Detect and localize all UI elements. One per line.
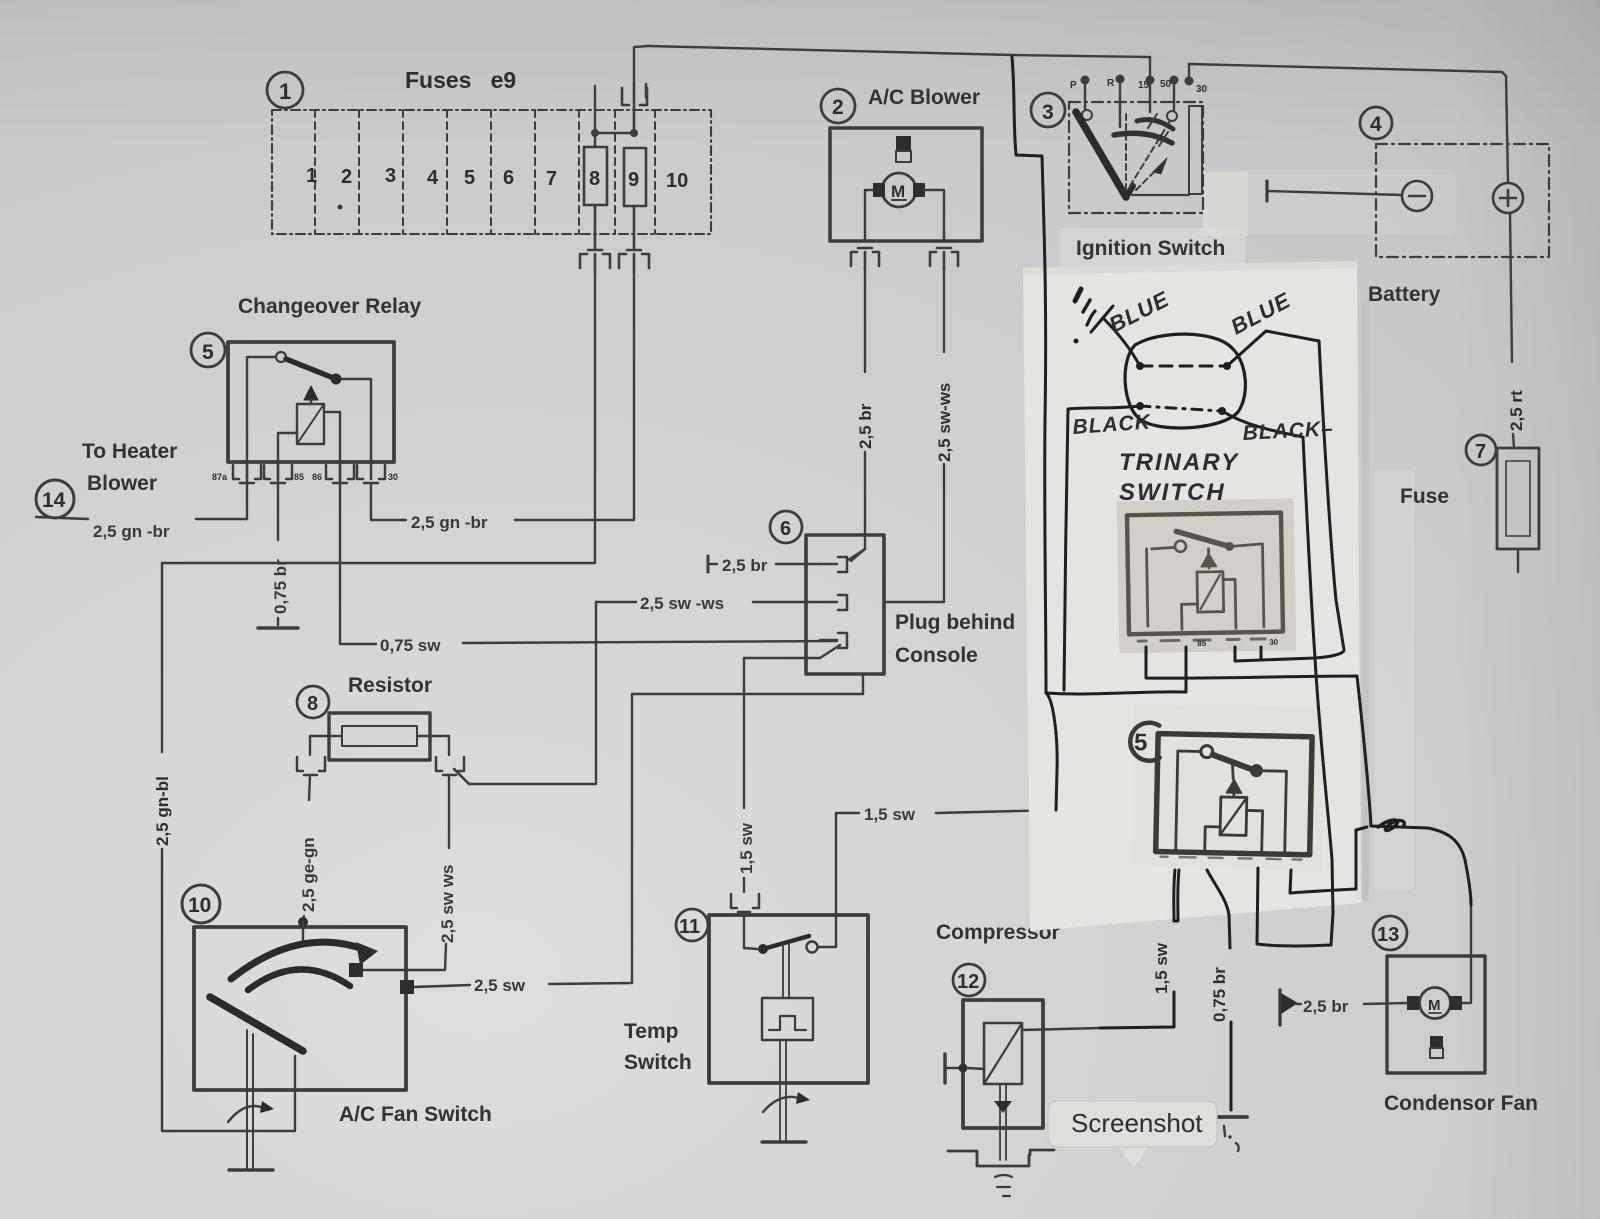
svg-text:SWITCH: SWITCH xyxy=(1119,479,1226,506)
condenser fan left wire 2,5 br with flag xyxy=(1364,1003,1407,1004)
circled 1 xyxy=(267,72,303,108)
compressor right wire xyxy=(1022,1028,1100,1030)
fuse 7 xyxy=(1466,435,1496,465)
svg-text:12: 12 xyxy=(957,971,979,993)
fold shadow at overlay right edge xyxy=(1362,300,1369,900)
relay1 t4 stub xyxy=(1260,647,1263,660)
svg-text:50: 50 xyxy=(1160,79,1172,90)
screenshot button xyxy=(1048,1101,1217,1167)
svg-text:Battery: Battery xyxy=(1368,283,1441,306)
ignition terminal R xyxy=(1116,75,1125,128)
hand branch to relay1 t2 xyxy=(1046,647,1186,694)
svg-text:15: 15 xyxy=(1138,80,1150,91)
svg-text:2,5 br: 2,5 br xyxy=(856,403,875,449)
connector below fuse 8 xyxy=(580,205,610,272)
wire fuse9 top to battery top rail xyxy=(634,46,648,84)
svg-text:Ignition Switch: Ignition Switch xyxy=(1076,237,1225,260)
relay terminal connectors xyxy=(233,465,385,483)
ignition switch 3 xyxy=(1069,102,1203,213)
temp switch internal xyxy=(743,915,745,948)
svg-text:5: 5 xyxy=(464,167,475,189)
wire fuse 9 down to relay terminal 30 xyxy=(515,272,634,520)
svg-text:0,75 sw: 0,75 sw xyxy=(380,636,441,655)
svg-text:Resistor: Resistor xyxy=(348,674,432,697)
plug pin 3 xyxy=(820,633,847,648)
tape band under ignition label xyxy=(1060,228,1245,268)
blower left wire down xyxy=(865,190,873,241)
tape patch right of ignition xyxy=(1240,170,1455,235)
svg-text:2,5 br: 2,5 br xyxy=(722,556,768,575)
svg-text:2,5 gn -br: 2,5 gn -br xyxy=(93,522,170,541)
wire ignition 30 to battery plus xyxy=(1189,64,1508,183)
svg-text:Switch: Switch xyxy=(624,1051,692,1074)
wire terminal 85 to ground xyxy=(277,463,279,540)
svg-text:2,5 sw -ws: 2,5 sw -ws xyxy=(640,594,724,613)
scribble blob on fan wire xyxy=(1378,820,1404,831)
plug bottom wire to fan switch xyxy=(549,674,863,984)
changeover relay 5 xyxy=(228,342,394,462)
circled 4 xyxy=(1360,107,1392,139)
svg-text:9: 9 xyxy=(628,169,639,191)
fuse box 1 xyxy=(272,110,711,234)
plug pin 2 xyxy=(820,595,847,610)
wire fuse 8 down-left to gn-bl rail xyxy=(162,272,595,563)
condenser fan brush xyxy=(1430,1036,1443,1048)
svg-text:1,5 sw: 1,5 sw xyxy=(737,822,756,874)
blower right wire down xyxy=(925,190,944,241)
coil left wire to terminal 85 xyxy=(278,433,297,463)
rotation arrow xyxy=(228,1106,268,1122)
battery plus xyxy=(1493,183,1523,213)
circled 2 xyxy=(821,89,855,123)
blob top dashed line xyxy=(1140,365,1227,368)
svg-text:Fuses e9: Fuses e9 xyxy=(405,67,516,93)
hand-drawn wiring xyxy=(1012,57,1471,1110)
fuse 9 element xyxy=(624,148,646,206)
svg-text:6: 6 xyxy=(780,518,791,540)
relay1 t1 wire down-right to condenser fan xyxy=(1146,647,1428,828)
fan switch lever xyxy=(210,997,303,1051)
wire 2,5 gn-bl vertical rail xyxy=(161,563,163,752)
plug pin 1 xyxy=(820,557,847,572)
compressor left terminal xyxy=(943,1054,946,1083)
relay2 t1 wire down to compressor (1,5 sw) xyxy=(1174,870,1175,921)
fan switch arcs xyxy=(231,942,366,979)
resistor right terminal xyxy=(417,736,449,755)
wire terminal 86 to plug pin 3 (0,75 sw) xyxy=(340,463,376,644)
ignition terminal 15 xyxy=(1146,57,1155,112)
fan switch terminals xyxy=(349,963,363,977)
compressor shaft and arrow xyxy=(999,1084,1001,1160)
svg-text:0,75 br: 0,75 br xyxy=(1210,967,1229,1022)
resistor left terminal xyxy=(310,736,342,755)
fuse 8 element xyxy=(584,147,607,205)
svg-text:Temp: Temp xyxy=(624,1020,678,1043)
ignition dashed positions xyxy=(1126,112,1170,190)
svg-text:2: 2 xyxy=(341,166,352,188)
rotated wire labels top xyxy=(153,383,1526,846)
condenser fan right wire up xyxy=(1462,956,1471,1003)
ignition lever xyxy=(1076,112,1126,197)
svg-text:30: 30 xyxy=(388,472,398,482)
wire 2,5 br into pin 1 xyxy=(707,556,710,572)
black wire bottom-right to rail B xyxy=(1222,411,1303,437)
wire 2,5 ge-gn down to fan switch xyxy=(309,775,310,800)
svg-text:R: R xyxy=(1107,78,1115,89)
tape patch near ignition xyxy=(1203,172,1248,236)
battery minus xyxy=(1402,181,1432,211)
blob bottom dash-dot line xyxy=(1140,406,1222,411)
svg-text:7: 7 xyxy=(1475,441,1486,463)
svg-text:86: 86 xyxy=(312,472,322,482)
svg-text:2,5 sw ws: 2,5 sw ws xyxy=(438,865,457,943)
svg-text:To Heater: To Heater xyxy=(82,440,177,463)
svg-text:8: 8 xyxy=(589,168,600,190)
svg-text:1,5 sw: 1,5 sw xyxy=(864,805,916,824)
svg-text:5: 5 xyxy=(1134,729,1148,756)
svg-text:30: 30 xyxy=(1196,84,1208,95)
connector above fuse 9 xyxy=(622,84,647,133)
temp switch 11 xyxy=(676,909,708,941)
junction dot fuse 9 top xyxy=(630,129,638,137)
svg-text:10: 10 xyxy=(188,894,211,917)
svg-text:M: M xyxy=(891,182,905,201)
relay arm xyxy=(286,359,336,379)
relay 1 (taped copy) xyxy=(1127,513,1283,650)
white overlay paper xyxy=(1023,261,1361,931)
fan switch top junction dot xyxy=(298,917,308,927)
svg-text:8: 8 xyxy=(307,693,318,715)
circled 14 xyxy=(36,480,74,518)
svg-text:Changeover Relay: Changeover Relay xyxy=(238,295,422,318)
compressor coupling connectors xyxy=(948,1150,1054,1196)
wire 2,5 sw-ws blower to plug xyxy=(943,268,945,352)
svg-text:87a: 87a xyxy=(212,472,228,482)
temp switch top connector xyxy=(731,894,759,912)
svg-text:1,5 sw: 1,5 sw xyxy=(1152,942,1171,994)
blower brush symbol xyxy=(896,136,911,151)
svg-text:85: 85 xyxy=(1197,639,1207,648)
svg-text:Plug behind: Plug behind xyxy=(895,611,1015,634)
svg-text:14: 14 xyxy=(42,489,66,512)
svg-text:2: 2 xyxy=(832,96,844,119)
svg-text:85: 85 xyxy=(294,472,304,482)
ignition arcs xyxy=(1114,133,1172,143)
battery 4 xyxy=(1376,144,1549,257)
plug behind console 6 xyxy=(806,535,884,674)
top rail wire to ignition terminal 15 xyxy=(648,46,1150,57)
blue wire top-right to rail A xyxy=(1227,331,1319,366)
sw-ws riser to resistor xyxy=(454,602,596,784)
svg-text:Console: Console xyxy=(895,644,978,667)
svg-text:30: 30 xyxy=(1269,638,1279,647)
svg-text:2,5 sw-ws: 2,5 sw-ws xyxy=(935,383,954,462)
relay1 photocopy paper xyxy=(1117,498,1297,653)
black wire bottom-left down left side xyxy=(1064,406,1140,690)
wire link fuse8-fuse9 tops xyxy=(595,132,634,134)
battery minus wire and terminal bar xyxy=(1267,191,1402,195)
condenser fan 13 xyxy=(1373,916,1407,950)
ignition terminal 50 xyxy=(1167,76,1179,122)
junction dot fuse 8 top xyxy=(591,129,599,137)
svg-text:4: 4 xyxy=(427,167,439,189)
svg-text:13: 13 xyxy=(1377,924,1399,946)
svg-text:1: 1 xyxy=(306,165,317,187)
svg-text:Fuse: Fuse xyxy=(1400,485,1449,508)
relay coil xyxy=(297,404,324,444)
svg-text:1: 1 xyxy=(279,79,291,104)
fuse numbers xyxy=(306,165,688,210)
relay arrow xyxy=(304,386,318,400)
tape strip right of overlay xyxy=(1374,470,1414,890)
blower motor M xyxy=(882,173,916,207)
svg-text:11: 11 xyxy=(679,916,700,938)
svg-text:3: 3 xyxy=(385,165,396,187)
svg-text:5: 5 xyxy=(202,341,214,364)
blue wire top-left with strain marks xyxy=(1104,319,1140,366)
relay 2 (taped copy) xyxy=(1128,722,1312,859)
svg-text:BLACK–: BLACK– xyxy=(1242,417,1334,445)
svg-text:2,5 br: 2,5 br xyxy=(1303,997,1349,1016)
svg-text:7: 7 xyxy=(546,168,557,190)
svg-text:2,5 rt: 2,5 rt xyxy=(1507,390,1526,431)
pin1 diagonal to blower wire xyxy=(848,549,865,560)
svg-text:Condensor Fan: Condensor Fan xyxy=(1384,1092,1538,1115)
svg-text:P: P xyxy=(1070,80,1077,91)
blower terminals xyxy=(873,183,885,197)
circled 3 xyxy=(1031,93,1065,127)
hand rail down to 1,5 sw line xyxy=(1046,693,1057,810)
relay2 photocopy paper xyxy=(1131,704,1324,870)
diagonal from resistor right to riser xyxy=(454,769,469,784)
ignition inner bottom line xyxy=(1132,194,1189,196)
svg-text:10: 10 xyxy=(666,170,688,192)
wire above fuse 8 xyxy=(594,86,596,147)
svg-text:TRINARY: TRINARY xyxy=(1119,449,1239,476)
hand-written labels xyxy=(1072,286,1335,506)
svg-text:Blower: Blower xyxy=(87,472,157,495)
svg-text:M: M xyxy=(1428,997,1441,1014)
rail B: black-right down to relay2 t3 jog xyxy=(1257,437,1333,946)
relay internal wires xyxy=(247,357,276,463)
svg-text:4: 4 xyxy=(1370,113,1382,136)
svg-text:A/C Fan Switch: A/C Fan Switch xyxy=(339,1103,492,1126)
terminal labels xyxy=(1070,78,1208,95)
fan switch shaft xyxy=(246,1030,248,1168)
wire 2,5 sw ws down to fan switch xyxy=(448,775,450,848)
svg-text:6: 6 xyxy=(503,167,514,189)
svg-text:2,5 ge-gn: 2,5 ge-gn xyxy=(299,837,318,912)
ignition terminal P xyxy=(1081,76,1093,121)
wire battery plus down 2,5 rt xyxy=(1510,213,1512,362)
svg-text:2,5 gn-bl: 2,5 gn-bl xyxy=(153,776,172,846)
relay pivot xyxy=(276,352,286,362)
ignition contact slashes xyxy=(1148,114,1157,128)
svg-text:3: 3 xyxy=(1042,101,1054,124)
wire terminal 87a to heater blower xyxy=(196,463,247,519)
hand left rail from top wire xyxy=(1012,57,1046,692)
pin3 fork to temp switch xyxy=(744,645,840,808)
svg-text:2,5 sw: 2,5 sw xyxy=(474,976,526,995)
trinary blob xyxy=(1125,334,1245,428)
connector below fuse 9 xyxy=(619,206,649,272)
A/C fan switch 10 xyxy=(182,885,220,923)
wire 2,5 br blower to plug xyxy=(864,268,866,372)
resistor 8 xyxy=(297,686,329,718)
wire 2,5 sw-ws into pin 2 xyxy=(596,601,636,603)
svg-text:Screenshot: Screenshot xyxy=(1071,1108,1203,1138)
relay1 t3 wire xyxy=(1234,647,1237,661)
svg-text:2,5 gn -br: 2,5 gn -br xyxy=(411,513,488,532)
ignition small arrow xyxy=(1153,158,1167,174)
svg-text:0,75 br: 0,75 br xyxy=(271,559,290,614)
temp switch actuator xyxy=(782,944,784,998)
ground for 0,75 br xyxy=(1217,1117,1247,1151)
svg-text:A/C Blower: A/C Blower xyxy=(868,86,980,109)
hand link to condenser fan printed wire xyxy=(1428,828,1471,905)
rail A: blue-right down to relay1 t3 xyxy=(1235,341,1344,661)
ground fan switch xyxy=(229,1168,273,1171)
ground symbol relay xyxy=(258,626,298,629)
A/C Blower box 2 xyxy=(830,128,982,241)
rotated labels lower area xyxy=(1152,942,1229,1022)
relay2 t4 jog to fan wire xyxy=(1290,827,1367,893)
relay2 t2 wire down to ground (0,75 br) xyxy=(1207,870,1230,948)
ignition terminal 30 xyxy=(1185,64,1194,86)
coil right wire to terminal 86 xyxy=(324,412,340,463)
